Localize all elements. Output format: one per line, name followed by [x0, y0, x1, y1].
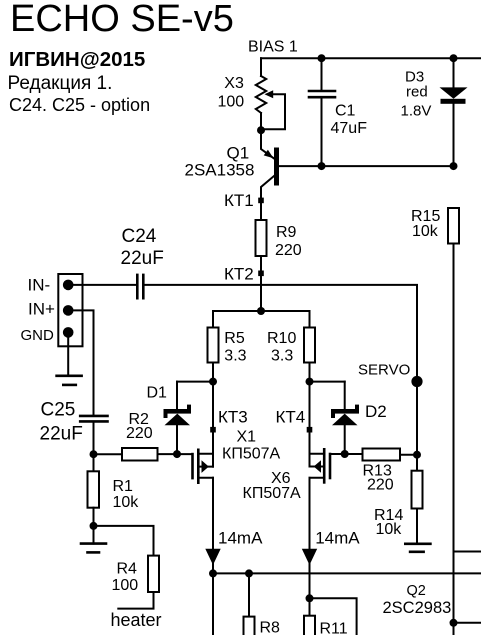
current arrow left 14mA: [205, 549, 220, 565]
resistor R9: [256, 220, 267, 256]
svg-text:1.8V: 1.8V: [401, 103, 432, 120]
svg-text:220: 220: [275, 242, 302, 259]
junction R10 bottom: [306, 378, 314, 386]
R14 label: [374, 507, 403, 524]
R11 label: [320, 621, 348, 635]
junction tail left: [209, 569, 217, 577]
pin IN- label: [28, 276, 51, 295]
svg-text:IN-: IN-: [28, 276, 51, 295]
svg-text:14mA: 14mA: [218, 528, 263, 547]
Q1 label: [227, 144, 250, 163]
D3 note red: [406, 84, 428, 101]
C1 label: [335, 102, 356, 119]
R10 value 3.3: [271, 348, 293, 365]
C25 label: [41, 400, 76, 421]
X1 label: [237, 429, 257, 446]
R2 label: [129, 411, 150, 428]
mosfet X1: [193, 430, 214, 483]
wire D2 top: [310, 381, 345, 383]
junction R13 right: [413, 451, 421, 459]
C1 value 47uF: [331, 120, 368, 137]
svg-text:R9: R9: [276, 224, 297, 241]
wire R9 to KT2: [260, 256, 262, 273]
svg-text:КП507А: КП507А: [222, 446, 281, 463]
junction C1 top: [318, 54, 326, 62]
svg-text:red: red: [406, 84, 428, 101]
svg-text:КТ1: КТ1: [224, 191, 254, 210]
junction divider top: [257, 307, 265, 315]
wire GND pin down: [67, 332, 69, 375]
wire R8 lead: [248, 573, 250, 616]
svg-text:КТ3: КТ3: [218, 408, 248, 427]
svg-text:2SC2983: 2SC2983: [383, 599, 452, 617]
wire R1 bottom: [93, 508, 95, 526]
title text: [10, 0, 234, 40]
svg-text:X3: X3: [224, 75, 244, 92]
junction D3 bottom: [450, 162, 458, 170]
R5 value 3.3: [224, 348, 246, 365]
node KT4: [307, 427, 313, 433]
junction X3 bottom node: [257, 126, 265, 134]
wire R2 to gate: [158, 453, 193, 455]
wire R13 to servo column: [400, 454, 417, 456]
heater label: [111, 610, 162, 630]
wire X1 source down: [212, 478, 214, 635]
diode D1 zener: [164, 382, 192, 455]
wire stub right mid: [454, 551, 481, 553]
wire C25 to R1 node: [93, 423, 95, 455]
svg-text:3.3: 3.3: [224, 348, 246, 365]
KT3 label: [218, 408, 248, 427]
pin GND label: [21, 327, 55, 344]
wire KT1 to R9: [260, 200, 262, 220]
wire R10 bottom column: [309, 363, 311, 467]
svg-text:ECHO SE-v5: ECHO SE-v5: [10, 0, 234, 40]
C24 label: [122, 226, 157, 247]
wire D1 top: [177, 381, 213, 383]
resistor R2: [122, 448, 158, 461]
svg-text:BIAS 1: BIAS 1: [248, 39, 298, 56]
wire bottom right stub: [454, 622, 481, 624]
wire C24 to SERVO column: [145, 285, 418, 382]
wire X6 source down: [309, 478, 311, 599]
R8 label: [260, 620, 281, 635]
svg-text:R8: R8: [260, 620, 281, 635]
potentiometer X3: [256, 76, 285, 130]
wire BIAS rail: [261, 57, 481, 59]
R10 label: [267, 330, 296, 347]
wire tail rail: [213, 572, 481, 574]
svg-text:100: 100: [112, 577, 139, 594]
R14 value 10k: [376, 521, 403, 538]
junction D2 gate node: [341, 450, 349, 458]
R4 value 100: [112, 577, 139, 594]
svg-text:КП507А: КП507А: [243, 485, 302, 502]
svg-text:GND: GND: [21, 327, 55, 344]
C25 value 22uF: [40, 424, 83, 445]
svg-text:D1: D1: [147, 385, 168, 402]
ground connector: [57, 376, 82, 385]
current arrow right 14mA: [302, 549, 317, 565]
junction C1 bottom: [318, 162, 326, 170]
wire R1: [93, 454, 95, 471]
svg-text:220: 220: [126, 425, 153, 442]
svg-text:100: 100: [218, 94, 245, 111]
R13 label: [363, 463, 392, 480]
junction R2/C25/R1: [90, 450, 98, 458]
R2 value 220: [126, 425, 153, 442]
author text: [9, 48, 145, 71]
mosfet X6: [310, 449, 345, 482]
junction R5 bottom: [209, 378, 217, 386]
KT1 label: [224, 191, 254, 210]
wire D2 node to R13: [345, 453, 363, 455]
resistor R5: [208, 328, 219, 363]
node KT3: [210, 427, 216, 433]
capacitor C24: [137, 275, 143, 298]
resistor R4: [148, 556, 159, 592]
resistor R8: [244, 617, 255, 635]
D3 value 1.8V: [401, 103, 432, 120]
svg-text:C1: C1: [335, 102, 356, 119]
svg-text:КТ4: КТ4: [276, 408, 306, 427]
X1 part КП507А: [222, 446, 281, 463]
SERVO label: [358, 362, 410, 379]
wire source node to right down: [310, 598, 357, 635]
wire X3 top lead: [260, 58, 262, 76]
junction X6 source node: [306, 594, 314, 602]
R13 value 220: [367, 477, 394, 494]
junction D3 top: [450, 54, 458, 62]
C24 value 22uF: [121, 248, 164, 269]
transistor Q1: [261, 130, 279, 200]
svg-text:3.3: 3.3: [271, 348, 293, 365]
R9 value 220: [275, 242, 302, 259]
R15 label: [411, 208, 440, 225]
resistor R11: [304, 616, 315, 635]
diode D3: [440, 58, 468, 166]
svg-text:2SA1358: 2SA1358: [185, 161, 255, 180]
R1 label: [113, 478, 134, 495]
svg-text:R5: R5: [224, 330, 245, 347]
wire KT2 down to divider top: [260, 273, 262, 311]
node KT1: [258, 198, 264, 204]
capacitor C25: [80, 416, 107, 422]
svg-text:47uF: 47uF: [331, 120, 368, 137]
Q2 label: [407, 583, 426, 599]
junction D1 gate node: [173, 450, 181, 458]
R15 value 10k: [412, 223, 439, 240]
wire divider top: [213, 311, 310, 328]
svg-text:Q2: Q2: [407, 583, 426, 599]
wire R5 bottom column: [212, 363, 214, 467]
resistor R1: [88, 471, 100, 507]
node BIAS 1 label: [248, 39, 298, 56]
svg-text:C25: C25: [41, 400, 76, 421]
KT2 label: [224, 265, 254, 284]
X3 value 100: [218, 94, 245, 111]
D1 label: [147, 385, 168, 402]
svg-text:R1: R1: [113, 478, 134, 495]
capacitor C1: [309, 58, 335, 166]
wire IN- to C24: [68, 284, 137, 286]
svg-text:SERVO: SERVO: [358, 362, 410, 379]
svg-text:10k: 10k: [412, 223, 439, 240]
KT4 label: [276, 408, 306, 427]
svg-text:R11: R11: [320, 621, 348, 635]
svg-text:10k: 10k: [113, 494, 140, 511]
ground R14: [405, 544, 430, 552]
R4 label: [117, 561, 138, 578]
wire right rail down: [453, 244, 455, 635]
wire heater stub: [118, 592, 153, 609]
ground heater node: [81, 526, 106, 553]
resistor R14: [412, 455, 423, 544]
D3 label: [405, 68, 424, 85]
svg-text:22uF: 22uF: [40, 424, 83, 445]
svg-text:КТ2: КТ2: [224, 265, 254, 284]
svg-text:22uF: 22uF: [121, 248, 164, 269]
X3 label: [224, 75, 244, 92]
wire R11 lead: [309, 598, 311, 615]
junction bottom right: [450, 619, 458, 627]
svg-text:220: 220: [367, 477, 394, 494]
resistor R13: [363, 449, 401, 461]
R9 label: [276, 224, 297, 241]
svg-text:Редакция 1.: Редакция 1.: [8, 73, 113, 94]
connector J1: [58, 274, 82, 346]
wire SERVO down to R13: [416, 382, 418, 455]
resistor R15: [448, 208, 459, 244]
svg-text:D2: D2: [365, 402, 387, 421]
option note text: [9, 95, 150, 115]
Q1 part 2SA1358: [185, 161, 255, 180]
resistor R10: [304, 328, 315, 363]
wire R2 node: [94, 453, 123, 455]
svg-text:10k: 10k: [376, 521, 403, 538]
svg-text:ИГВИН@2015: ИГВИН@2015: [9, 48, 145, 71]
wire Q1 base to right rail: [279, 165, 454, 167]
node SERVO terminal: [411, 376, 422, 387]
svg-text:C24: C24: [122, 226, 157, 247]
diode D2 zener: [331, 382, 359, 454]
D2 label: [365, 402, 387, 421]
svg-text:IN+: IN+: [28, 299, 55, 318]
14mA label left: [218, 528, 263, 547]
X6 part КП507А: [243, 485, 302, 502]
svg-text:14mA: 14mA: [315, 528, 360, 547]
svg-text:X1: X1: [237, 429, 257, 446]
svg-text:heater: heater: [111, 610, 162, 630]
wire IN+ lead: [68, 310, 93, 415]
junction R8 top: [245, 569, 253, 577]
pin IN+ label: [28, 299, 55, 318]
svg-text:R10: R10: [267, 330, 296, 347]
R1 value 10k: [113, 494, 140, 511]
R5 label: [224, 330, 245, 347]
X6 label: [271, 470, 291, 487]
revision text: [8, 73, 113, 94]
junction heater node: [90, 522, 98, 530]
node KT2: [258, 271, 264, 277]
svg-text:R4: R4: [117, 561, 138, 578]
Q2 part 2SC2983: [383, 599, 452, 617]
wire heater branch: [94, 526, 154, 556]
svg-text:C24. C25 - option: C24. C25 - option: [9, 95, 150, 115]
14mA label right: [315, 528, 360, 547]
